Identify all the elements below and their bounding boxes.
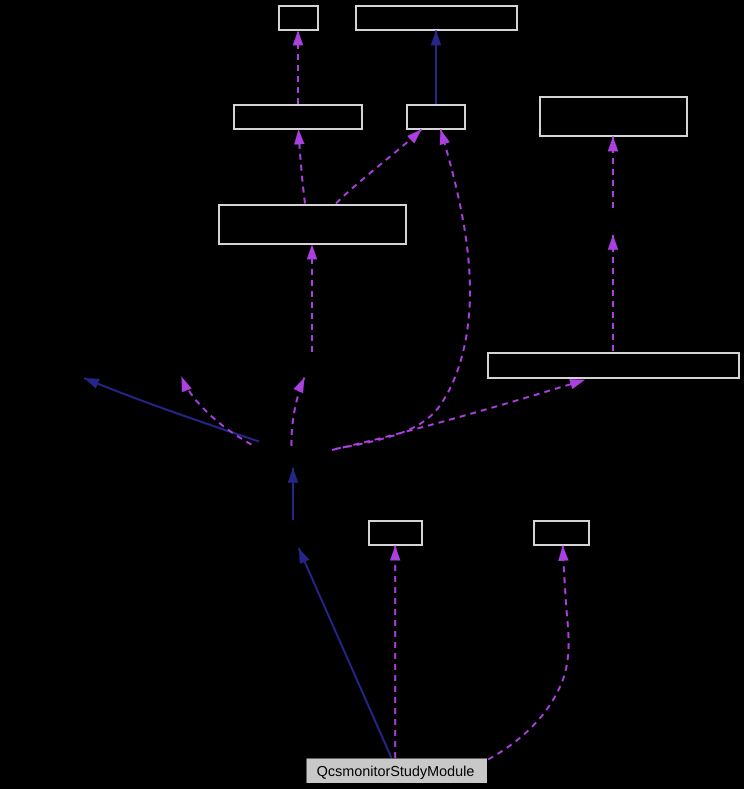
edge F to D (dashed) bbox=[336, 129, 422, 203]
edge K to M (dashed) bbox=[291, 378, 304, 447]
edge C to A (dashed) bbox=[297, 30, 299, 104]
node A (top small box) bbox=[279, 6, 318, 30]
edge K to G (dashed, gentle rise) bbox=[332, 380, 585, 450]
edge D to B (solid blue) bbox=[435, 30, 437, 104]
node C (second row left box) bbox=[234, 105, 362, 129]
node G (wide middle box) bbox=[488, 353, 739, 378]
edge K to N (solid blue, up-left) bbox=[84, 378, 259, 442]
node B (top wide box) bbox=[356, 6, 517, 30]
node F (third row tall box) bbox=[219, 205, 406, 244]
edge L to K (solid blue vertical) bbox=[292, 468, 294, 520]
node J label bbox=[317, 766, 473, 779]
node J QcsmonitorStudyModule (filled) bbox=[307, 759, 488, 784]
edge J to H (dashed vertical) bbox=[394, 546, 396, 758]
node D (second row small box) bbox=[407, 105, 465, 129]
edge J to I (dashed curve) bbox=[488, 546, 569, 760]
node H (lower small box left) bbox=[369, 521, 422, 545]
edge P to E (dashed vertical) bbox=[612, 136, 614, 208]
edge F to C (dashed) bbox=[299, 129, 306, 203]
edge K to O (dashed, up-left) bbox=[182, 377, 252, 445]
edge G to P (dashed vertical) bbox=[612, 235, 614, 351]
edge M to F (dashed vertical) bbox=[311, 244, 313, 352]
edge J to L (solid blue diagonal) bbox=[299, 548, 392, 758]
node I (lower small box right) bbox=[534, 521, 589, 545]
edge K to D (long dashed curve) bbox=[335, 129, 470, 449]
node E (second row right tall box) bbox=[540, 97, 687, 136]
